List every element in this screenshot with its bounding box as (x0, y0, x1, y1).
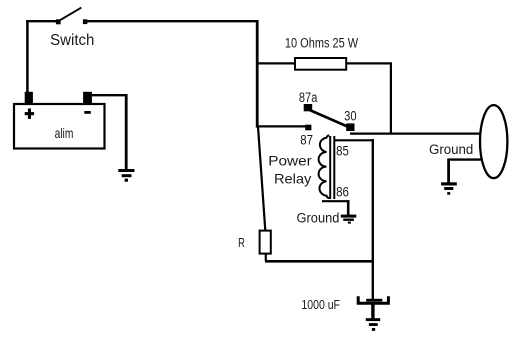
relay contact 87a (304, 104, 313, 111)
svg-text:Power: Power (268, 154, 312, 169)
capacitor C1 top plate (366, 299, 382, 302)
wire capacitor to ground (371, 304, 374, 319)
lamp L1 (480, 105, 507, 178)
relay armature 87a-30 (309, 110, 349, 128)
svg-text:87: 87 (300, 131, 313, 147)
wire battery+ to switch left terminal (26, 20, 58, 22)
svg-text:85: 85 (336, 142, 349, 158)
relay core (330, 136, 334, 199)
wire coil terminal 86 to ground (322, 200, 349, 215)
capacitor C1 bottom plate (cup) (358, 296, 388, 303)
wire battery- to ground (92, 94, 127, 170)
wire main vertical at x=257 (256, 20, 259, 128)
wire R to bottom rail (265, 254, 372, 261)
ground lamp (441, 182, 457, 194)
wire switch to top-right corner (85, 20, 258, 22)
svg-text:87a: 87a (299, 90, 318, 106)
svg-text:Ground: Ground (297, 210, 340, 226)
svg-text:Switch: Switch (50, 32, 94, 50)
svg-text:10 Ohms 25 W: 10 Ohms 25 W (285, 35, 358, 51)
svg-text:R: R (238, 237, 245, 251)
wire lamp to ground (449, 159, 482, 183)
switch S1 (56, 8, 87, 25)
resistor R (260, 231, 271, 254)
svg-text:86: 86 (336, 183, 349, 199)
resistor 10 Ohms 25 W (295, 58, 346, 70)
battery B1 (14, 92, 105, 149)
wire contact 30 to lamp (350, 133, 480, 135)
svg-text:Ground: Ground (429, 142, 473, 157)
ground relay (341, 215, 357, 224)
svg-text:30: 30 (344, 109, 356, 124)
relay coil (319, 135, 330, 198)
label Power Relay (268, 154, 312, 187)
svg-text:1000 uF: 1000 uF (301, 297, 340, 312)
wire battery+ vertical (26, 21, 29, 92)
wire node to relay contact 87 (256, 125, 306, 127)
svg-text:Relay: Relay (274, 172, 312, 188)
svg-text:alim: alim (55, 125, 74, 141)
wire resistor to right vertical (346, 62, 391, 134)
ground battery (118, 169, 134, 182)
wire node to power resistor (256, 62, 294, 64)
relay contact 30 (346, 123, 354, 131)
wire coil terminal 85 to capacitor node (334, 139, 373, 300)
relay contact 87 (305, 125, 311, 131)
wire node down to resistor R (slight slant) (258, 126, 265, 230)
ground capacitor (366, 318, 380, 331)
